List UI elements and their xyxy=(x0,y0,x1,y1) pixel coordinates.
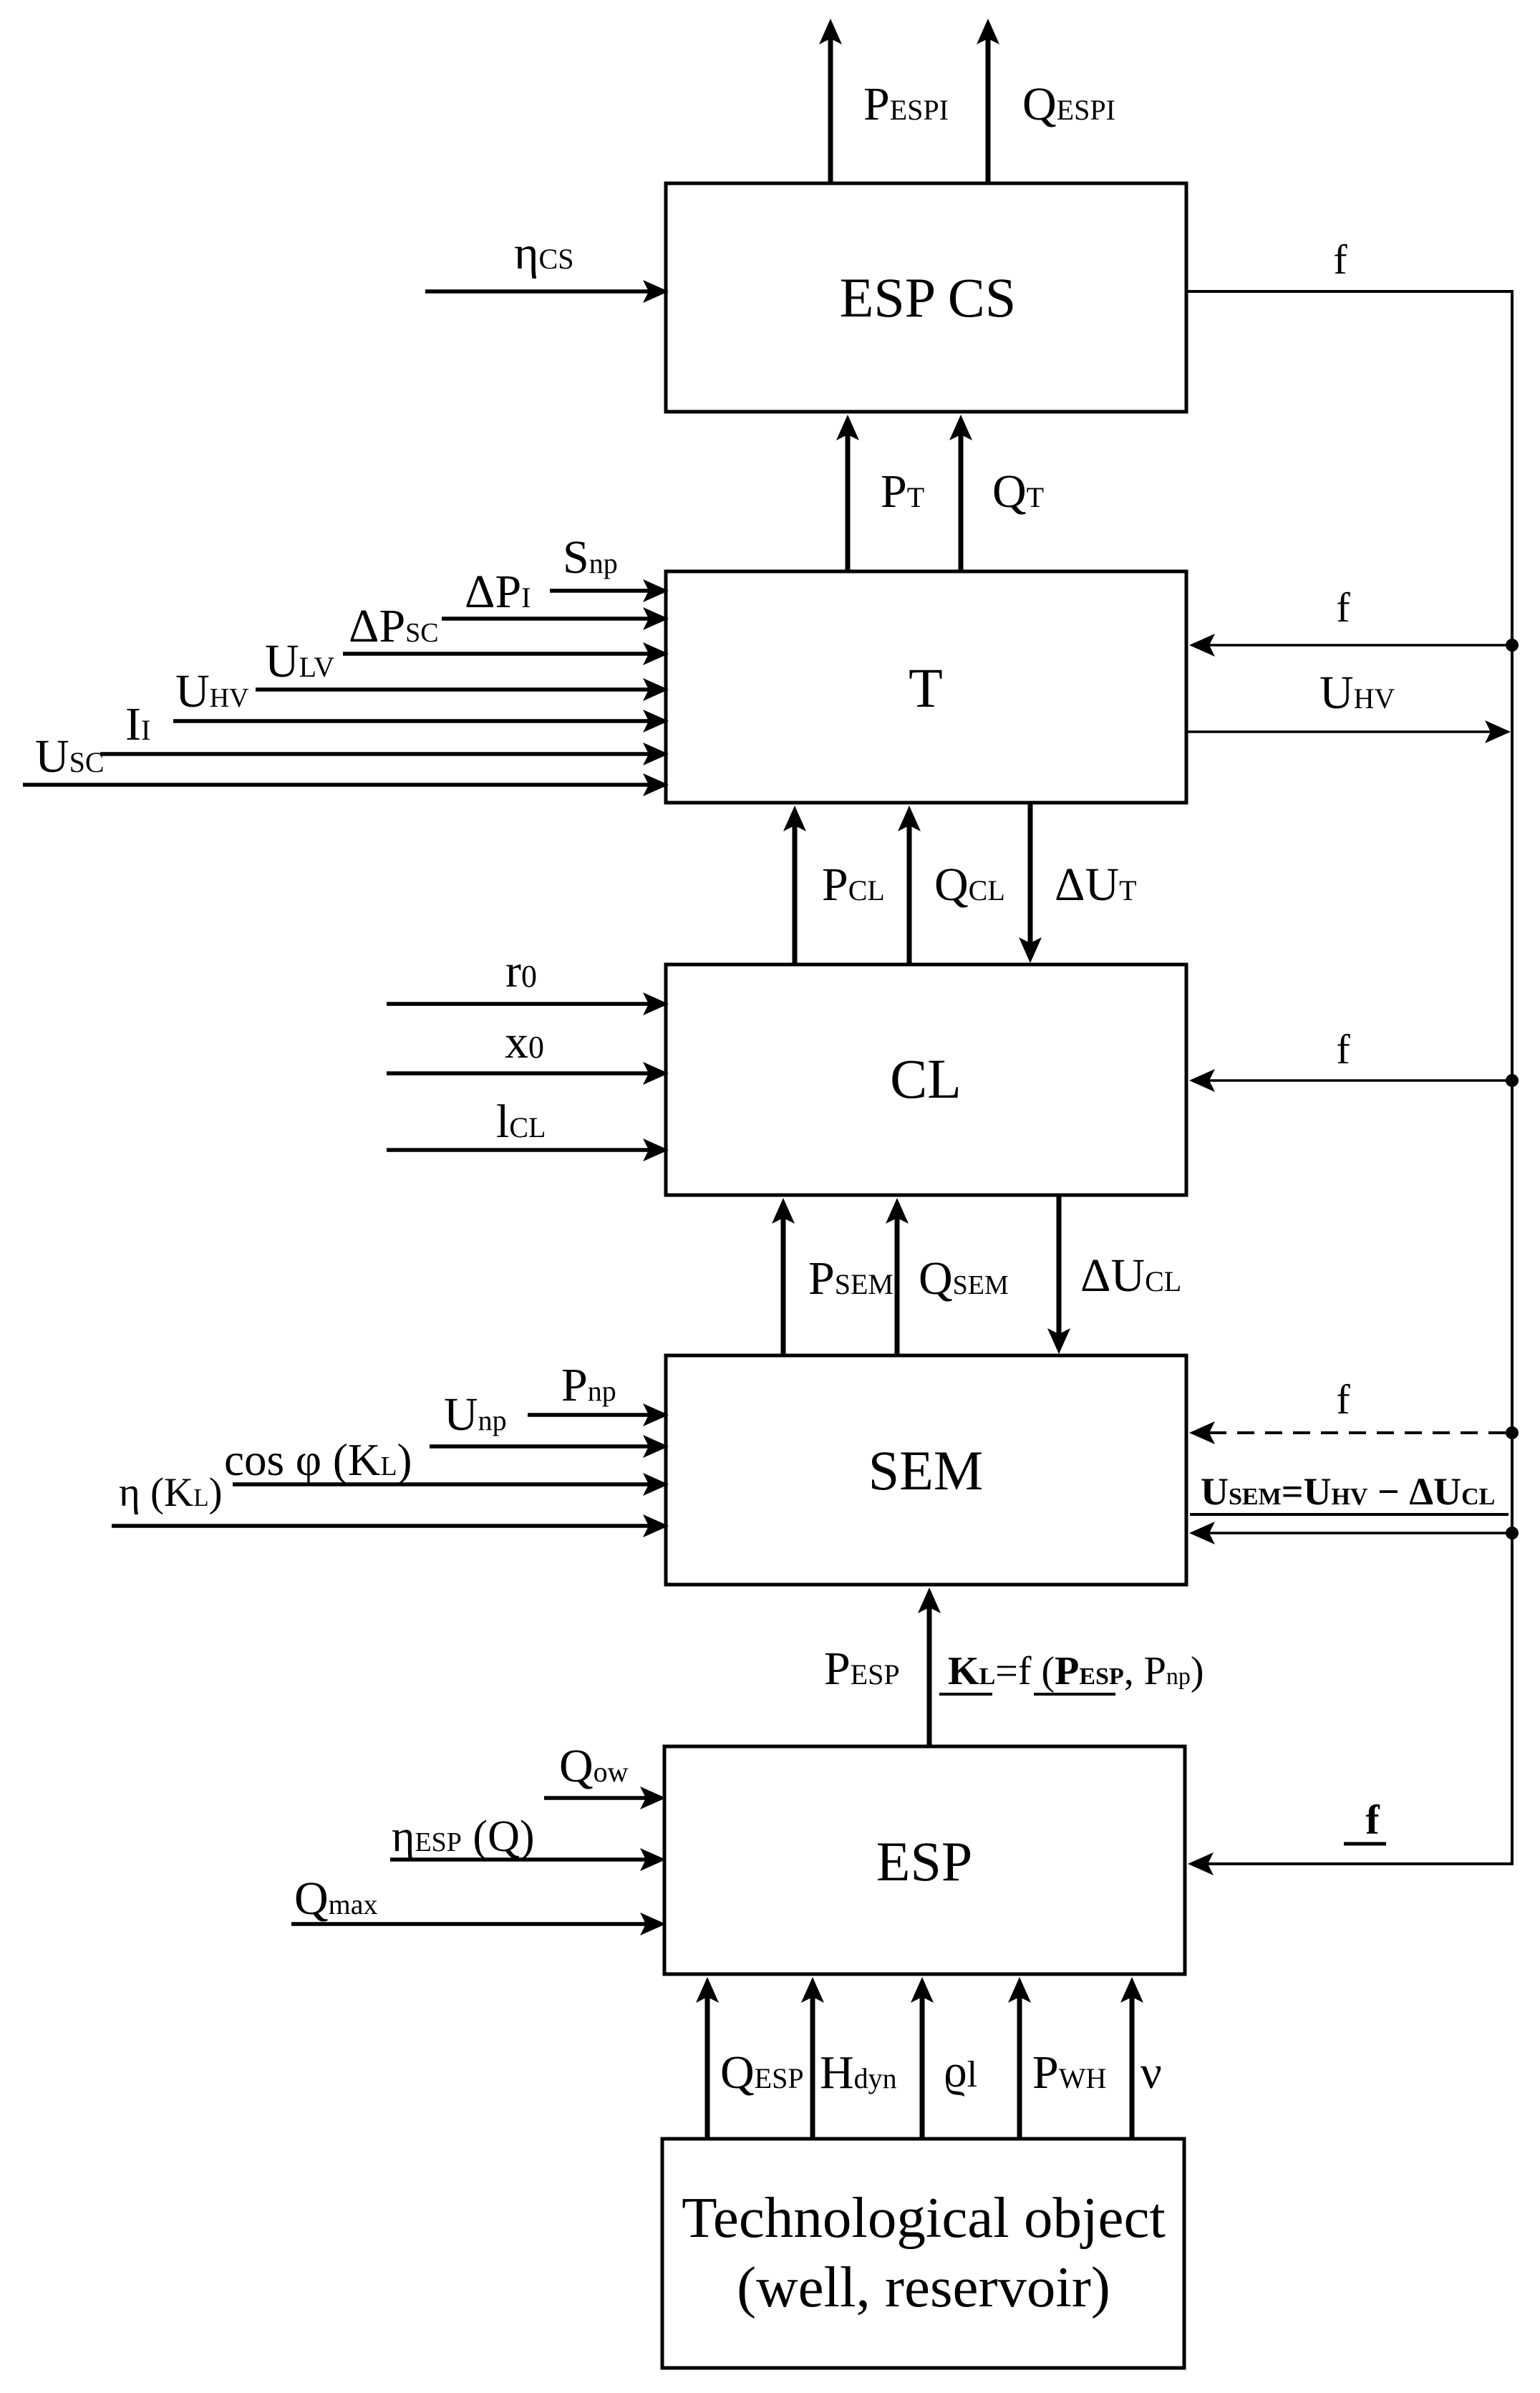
underline of (P_ESP xyxy=(1034,1693,1115,1696)
wire Q_CL xyxy=(907,826,912,965)
wire I_I input to T xyxy=(100,752,649,756)
wire P_T xyxy=(846,435,851,571)
svg-text:ΔPI: ΔPI xyxy=(465,566,531,618)
wire x_0 input to CL xyxy=(387,1071,649,1075)
svg-text:ESP: ESP xyxy=(876,1830,972,1892)
svg-text:SEM: SEM xyxy=(868,1439,983,1502)
wire cos phi input to SEM xyxy=(233,1482,649,1486)
svg-text:f: f xyxy=(1336,584,1350,631)
svg-text:ESP CS: ESP CS xyxy=(840,266,1016,329)
wire P_SEM xyxy=(781,1218,786,1357)
block ESP xyxy=(664,1746,1185,1974)
wire eta (K_L) input to SEM xyxy=(112,1524,649,1528)
wire r_0 input to CL xyxy=(387,1002,649,1006)
wire P_WH from technological object xyxy=(1017,1997,1022,2139)
wire Q_ESP from technological object xyxy=(705,1997,710,2139)
svg-text:CL: CL xyxy=(890,1048,962,1110)
arrowhead f into ESP xyxy=(1188,1852,1214,1875)
wire U_HV output of T to bus xyxy=(1186,730,1493,733)
wire rho_l from technological object xyxy=(920,1997,925,2139)
wire l_CL input to CL xyxy=(387,1148,649,1152)
wire U_SEM into SEM xyxy=(1209,1532,1512,1534)
svg-text:Technological object: Technological object xyxy=(682,2185,1166,2250)
wire f bus from ESP CS down right side xyxy=(1186,291,1512,1864)
wire Q_SEM xyxy=(895,1218,900,1357)
underline of K_L xyxy=(939,1693,992,1696)
svg-text:f: f xyxy=(1336,1026,1350,1073)
wire H_dyn from technological object xyxy=(810,1997,815,2139)
underline of bold f xyxy=(1344,1842,1386,1846)
wire Q_T xyxy=(959,435,964,571)
wire P_ESPI output xyxy=(828,39,833,183)
wire Q_ESPI output xyxy=(986,39,991,183)
wire Q_max input to ESP xyxy=(291,1922,646,1926)
wire eta_ESP input to ESP xyxy=(390,1857,646,1862)
wire f feedback into SEM dashed xyxy=(1209,1431,1512,1434)
block SEM xyxy=(666,1355,1186,1585)
svg-text:ν: ν xyxy=(1141,2046,1162,2099)
junction dot f-T xyxy=(1506,639,1519,652)
svg-text:(well, reservoir): (well, reservoir) xyxy=(737,2255,1110,2319)
wire f feedback into CL xyxy=(1209,1079,1512,1082)
wire f feedback into T xyxy=(1209,644,1512,647)
wire S_np input to T xyxy=(550,589,649,593)
block ESP CS xyxy=(666,183,1186,412)
svg-text:ηESP (Q): ηESP (Q) xyxy=(392,1812,535,1861)
wire dU_CL down xyxy=(1057,1195,1062,1334)
svg-text:f: f xyxy=(1336,1376,1350,1423)
wire dU_T down xyxy=(1028,803,1033,943)
svg-text:T: T xyxy=(909,657,943,719)
underline of U_SEM equation xyxy=(1190,1513,1508,1516)
wire U_LV input to T xyxy=(256,687,649,692)
block T xyxy=(666,571,1186,803)
wire U_np input to SEM xyxy=(430,1444,649,1449)
junction dot f-SEM xyxy=(1506,1426,1519,1439)
wire U_SC input to T xyxy=(23,783,649,787)
wire dP_I input to T xyxy=(442,617,649,621)
block Technological object xyxy=(662,2139,1184,2368)
wire U_HV input to T xyxy=(173,719,649,723)
wire Q_ow input to ESP xyxy=(544,1796,646,1800)
wire nu from technological object xyxy=(1130,1997,1135,2139)
wire P_CL xyxy=(793,826,798,965)
svg-text:f: f xyxy=(1365,1797,1380,1843)
svg-text:f: f xyxy=(1333,236,1347,283)
block CL xyxy=(666,965,1186,1195)
wire eta_CS input xyxy=(425,289,649,294)
junction dot f-CL xyxy=(1506,1074,1519,1087)
wire P_ESP xyxy=(927,1608,932,1746)
junction dot U_SEM xyxy=(1506,1527,1519,1539)
wire dP_SC input to T xyxy=(343,652,649,656)
wire P_np input to SEM xyxy=(528,1413,649,1417)
